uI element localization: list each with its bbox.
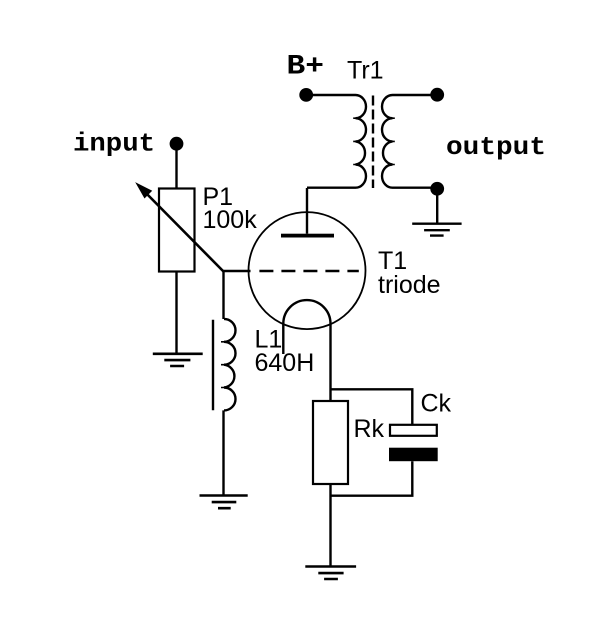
triode T1 envelope	[249, 212, 366, 329]
potentiometer P1	[136, 183, 223, 271]
wire output bottom to ground	[436, 192, 438, 223]
label Rk	[354, 415, 385, 443]
wire Ck bottom to Rk bottom	[331, 461, 413, 496]
svg-text:100k: 100k	[203, 206, 258, 234]
label B+	[287, 52, 325, 83]
wire plate lead	[306, 188, 308, 234]
plate (anode) bar	[281, 234, 334, 238]
inductor L1	[213, 319, 236, 411]
transformer Tr1 core (dashed)	[372, 96, 374, 189]
svg-text:640H: 640H	[255, 349, 315, 377]
node output top terminal	[430, 88, 444, 102]
svg-text:Rk: Rk	[354, 415, 385, 443]
svg-text:input: input	[73, 129, 155, 159]
ground under L1	[200, 496, 248, 509]
ground under output	[412, 224, 461, 236]
svg-text:B+: B+	[287, 52, 325, 83]
label input	[73, 129, 155, 159]
grid (dashed)	[259, 270, 358, 272]
svg-text:Ck: Ck	[421, 390, 452, 418]
svg-text:Tr1: Tr1	[347, 57, 384, 85]
wire P1 bottom to ground	[175, 272, 177, 354]
cathode filament	[283, 300, 330, 354]
node B+ terminal	[299, 88, 313, 102]
label T1 triode	[378, 247, 441, 299]
node input terminal	[170, 137, 184, 151]
resistor Rk	[313, 401, 348, 484]
label L1 value	[255, 325, 315, 377]
wire cathode branch to Ck	[331, 389, 413, 425]
ground under P1	[153, 354, 203, 366]
label output	[446, 132, 546, 162]
wire L1 bottom to ground	[222, 410, 224, 495]
wire Rk bottom to ground	[329, 484, 331, 566]
label Tr1	[347, 57, 384, 85]
label P1 value	[203, 183, 258, 234]
label Ck	[421, 390, 452, 418]
svg-text:output: output	[446, 132, 546, 162]
capacitor Ck bottom plate	[389, 448, 438, 462]
svg-text:triode: triode	[378, 271, 441, 299]
wire junction to L1 top	[222, 272, 224, 320]
wire grid lead	[224, 270, 251, 272]
ground under Rk/Ck	[305, 567, 356, 580]
wire cathode to Rk	[329, 324, 331, 401]
transformer Tr1 primary winding	[306, 95, 366, 188]
wire input dot to P1 top	[175, 146, 177, 189]
transformer Tr1 secondary winding	[382, 95, 437, 188]
node output bottom terminal	[430, 182, 444, 196]
capacitor Ck top plate	[390, 425, 437, 436]
